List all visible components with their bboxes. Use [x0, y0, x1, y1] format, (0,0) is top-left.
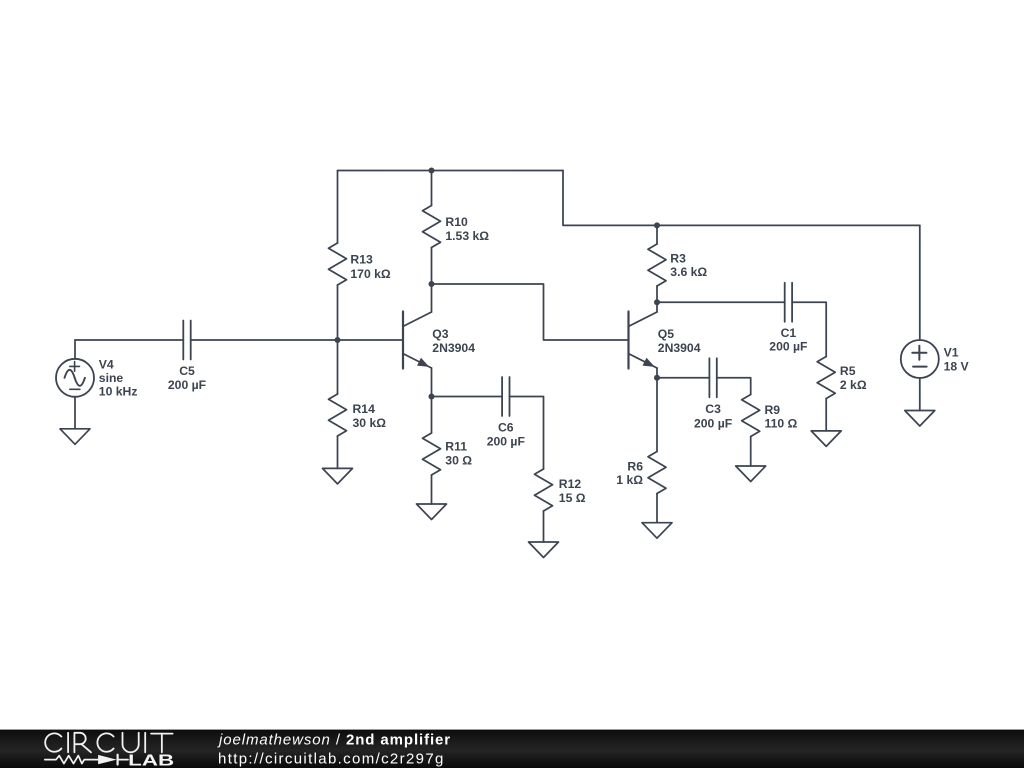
svg-text:joelmathewson / 2nd amplifier: joelmathewson / 2nd amplifier	[217, 731, 451, 748]
svg-text:http://circuitlab.com/c2r297g: http://circuitlab.com/c2r297g	[218, 750, 445, 767]
svg-text:LAB: LAB	[128, 752, 174, 768]
